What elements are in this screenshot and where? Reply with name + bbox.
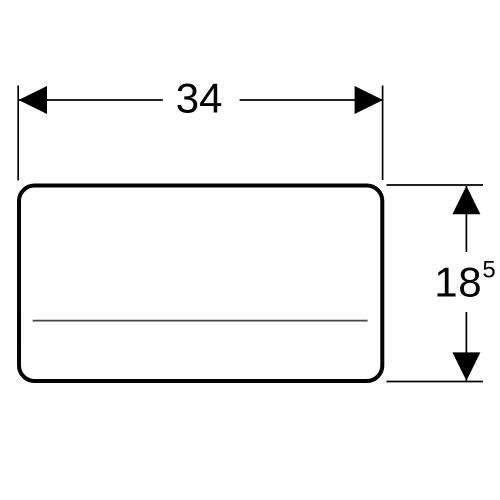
svg-text:5: 5 xyxy=(482,257,495,284)
height dimension line lower segment xyxy=(465,312,467,381)
width extension line right xyxy=(382,86,384,181)
height extension line top xyxy=(387,184,484,186)
height extension line bottom xyxy=(387,381,484,383)
width arrow left xyxy=(19,86,47,114)
height arrow down xyxy=(452,352,480,380)
width extension line left xyxy=(17,86,19,181)
plate split line xyxy=(33,320,368,322)
svg-text:34: 34 xyxy=(176,74,223,121)
width dimension line right segment xyxy=(240,99,383,101)
flush plate outline xyxy=(19,186,382,382)
height dimension line upper segment xyxy=(465,186,467,252)
width arrow right xyxy=(355,86,383,114)
width dimension line left segment xyxy=(19,99,163,101)
svg-text:18: 18 xyxy=(434,259,482,306)
height arrow up xyxy=(452,186,480,214)
